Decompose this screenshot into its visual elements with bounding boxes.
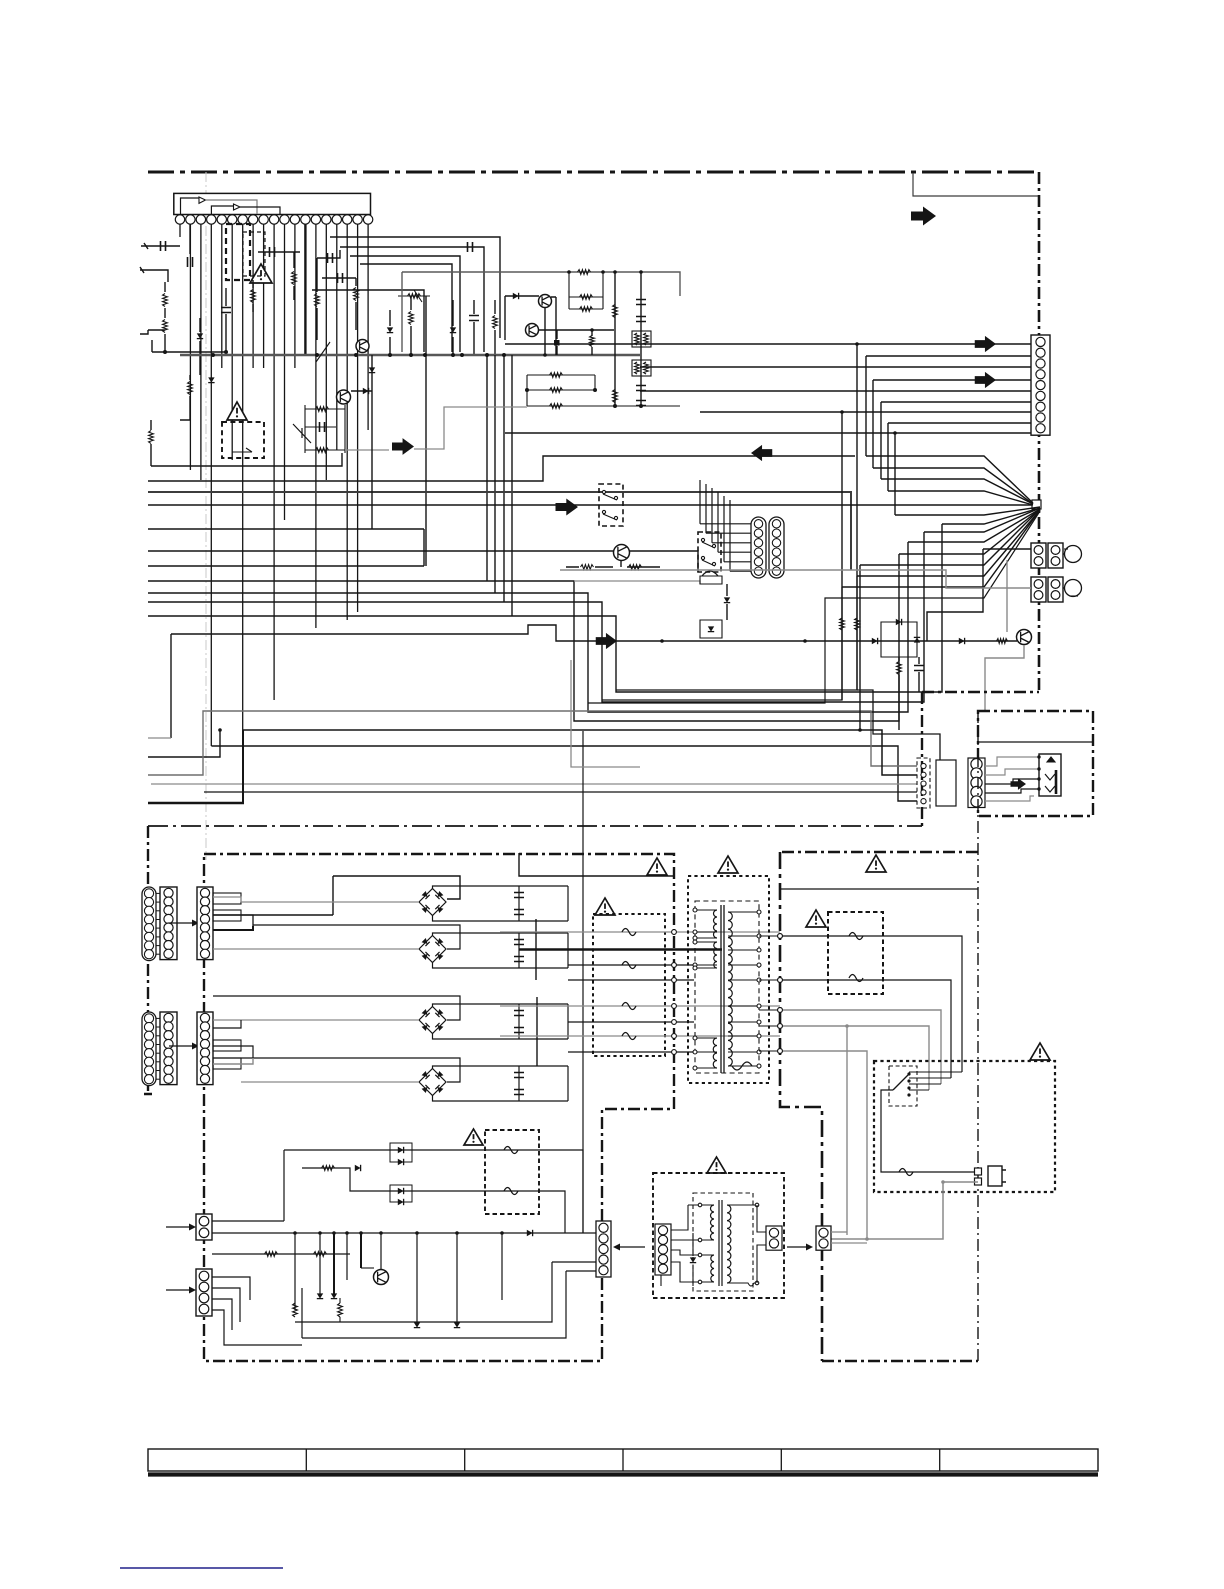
terminal circles on border [672,930,677,935]
warning triangle AC box [866,855,886,872]
AC wire 5 gray [780,1051,867,1239]
resistor R7 [315,294,320,307]
transformer T1 outer dotted box [688,876,769,1083]
T2 taps [688,1205,714,1282]
resistor R4 [188,382,193,395]
main standby bus [212,1232,596,1234]
transistor Q10 [374,1270,389,1285]
fan wire low4 [908,509,1040,542]
standby wire 2 + fuse [302,1168,565,1233]
line out6 [568,1021,694,1023]
small resistor R22 [338,1303,343,1317]
diode drop from bus [371,355,373,529]
resistor R9 [409,312,414,325]
pin branch staircase 5 [312,290,424,352]
fan wire low2 [942,508,1040,524]
left bus wire 6 [148,565,424,567]
bus junction dots [211,353,215,357]
thick analog bus line [180,354,640,357]
T1 primary winding 1 [714,910,718,938]
T1 primary taps [695,909,717,911]
arrow into CN-AC [787,1246,809,1248]
line out8 [568,1051,694,1053]
CN1 wire 8 [888,423,1031,491]
staircase vertical 1 [486,355,488,581]
lower-left long wire 2 [243,730,917,775]
bridge DB1 loop wire [213,876,460,915]
lower return wires [295,1262,596,1322]
diode D20 [527,1230,533,1236]
thermistor bump [732,1062,752,1070]
arrow into CN-S1 [166,1226,192,1228]
diode D2 [387,327,393,332]
fan node terminal [1032,500,1041,509]
connector CN-AC [816,1226,831,1250]
resistor R21 [293,1303,298,1317]
CN1 wire 3 [640,366,1031,368]
CN1 wire 2 [866,356,1031,456]
conn wires to bridges [213,897,241,902]
T2 right connector [766,1226,782,1250]
lamp connector pair 1 [1031,543,1046,568]
fan wire up3 [881,479,1033,504]
fan wire low3 [924,508,1040,532]
resistor R2 [163,320,168,333]
thick stub bottom left [148,802,244,804]
pin branch staircase 4 [360,264,452,352]
arrow lower mid [596,633,617,649]
line out4 [568,979,694,981]
node circles AC [778,934,783,939]
cap C2 [189,224,191,254]
wire to lamp1 [927,549,1031,641]
resistor R5 trimming [293,252,295,268]
arrow into IR [1011,778,1027,790]
buffer B inside U1 [211,206,233,215]
IR module box [1039,754,1061,796]
left bus wire 8 [148,542,908,712]
left bus wire 4 [148,528,424,530]
wire Q2 drops [545,297,556,355]
wires into J1 [700,523,751,525]
inter-rail vertical 2 [536,997,538,1066]
lamp LA2 [1063,587,1068,589]
T1 secondary winding [728,912,732,1066]
standby fuse dashed box [485,1130,539,1214]
wire pin3 to sub board [211,746,917,801]
thick secondary line [519,948,722,950]
warning triangle lower-left [227,402,247,420]
AC inlet dotted box [874,1061,1055,1192]
cap C7 [469,316,479,321]
power section top border [148,825,922,827]
resistor R20 [322,1166,335,1171]
T2 secondary winding [727,1205,731,1283]
transistor Q4 [337,390,351,404]
resistor R6 [251,290,256,303]
dashed box relay RY3 [222,422,264,458]
keyed stub plug 4 [213,1058,241,1069]
CN1 wire 7 drop [841,412,843,700]
tie lines pair1 [156,892,160,894]
resistor R13 [997,639,1008,644]
CN1 wire 6 [881,402,1031,479]
annotation slash [316,342,330,362]
bridge rectifier DB1 [241,901,418,903]
junctions [525,388,529,392]
resistor ladder RN1 [402,272,680,296]
diode D5 [872,638,878,644]
AC primary box left border [780,852,822,1361]
junction dots left cluster [163,350,167,354]
AC wire 3 gray [780,1010,941,1084]
AC primary box bottom border [822,1360,978,1362]
gray wire from plug [829,1182,978,1239]
bundle wire 792 [204,791,917,793]
bottom bundle wire 3 [151,783,917,785]
switch lever S1 [293,424,311,443]
inner dashed box small [243,232,265,276]
warning triangle AC inlet [1030,1043,1050,1060]
R/C/R bracket under Q4 [305,405,345,453]
gray drop to bundle [571,660,640,767]
resistor box pair RN2a [632,331,651,347]
fuse box F1-F4 [593,914,665,1056]
AC wire 2 with fuse [780,980,951,1078]
T1 secondary taps [728,911,759,913]
fuse F1 [500,931,780,933]
connector CN-P1 [197,887,213,960]
small trim resistor with arrow [398,290,430,302]
wire left stub row2 [140,270,168,282]
fan wire low9 [588,511,1040,703]
power unit box border [204,854,674,1361]
fuse F3 [500,1005,780,1007]
warning triangle power unit [647,858,667,875]
components mid bus [604,1249,610,1254]
pin branch staircase 2 [340,247,484,352]
IC pin wires [179,224,181,237]
coupling cap C1 and stub [144,245,180,247]
wire with diode D4 and transistor Q2 [505,295,539,297]
top right sub box [913,173,1038,196]
transformer T1 warning triangle [718,856,738,873]
column resistor x615 [614,272,616,406]
diode on pin3 drop [208,377,214,382]
transformer T1 inner dashed box [695,901,759,1073]
lamp LA1 [1063,553,1068,555]
staircase wires CN8 to IR [985,757,1039,766]
pin branch staircase 3 [350,256,460,352]
long vertical from trim [425,296,427,566]
lower-left long wire gray [148,711,917,775]
power section left border [144,826,152,1094]
T2 core [719,1200,722,1286]
wires T2 conn [671,1205,688,1230]
cap C5 [317,250,340,258]
arrow out of T2 left [617,1246,645,1248]
footer link line [120,1567,283,1569]
transistor Q3 [526,324,539,337]
gray drop to CN-AC [846,1026,848,1235]
caps C8 C9 [636,386,646,391]
page split dash-dot faint vertical [205,172,207,860]
wire left jog to bundle [148,730,220,757]
dashed relay RY1 [599,484,623,526]
T1 primary winding 3 [713,1038,717,1068]
coil connector J1 [751,517,766,578]
connector CN-S2 [196,1269,212,1316]
table bottom heavy rule [148,1472,1098,1476]
bus drops [294,1233,296,1310]
power switch dashed box [889,1066,917,1106]
inter-rail vertical 1 [535,919,537,980]
connector CN1 [1031,335,1050,435]
right column caps x641 [640,272,642,406]
wire y330 with diode square [538,329,614,331]
diode D1 [197,333,203,338]
wire to Q4 bracket [151,453,342,466]
arrow on bus 3 [556,498,579,515]
main board border right [1038,172,1041,692]
left bus wire 1 [148,456,855,481]
AC plug body [988,1166,1002,1186]
diodes on drops [317,1293,323,1298]
lamp connector pair 2 [1031,577,1046,602]
cap C4 series [258,251,300,253]
operation sub box [978,711,1093,816]
CN1 wire 1 with arrow [505,343,1031,345]
pin branch staircase 1 [330,237,500,338]
resistor R1 [164,282,166,292]
left bus wire 5 [148,551,698,572]
standby vertical from CN-S1 [212,1150,284,1221]
staircase vertical 3 [503,355,505,602]
keyed stub plug 2 [213,910,241,921]
buffer A inside U1 [181,198,200,215]
keyed stub plug 3 [213,1040,241,1051]
standby feed vertical [582,731,584,1233]
ribbon connector pair 1 [142,887,156,961]
T1 core [721,905,724,1073]
gray wires from CN-AC [831,1231,847,1233]
AC wire 1 with fuse [780,936,962,1072]
fan wire low7 [857,510,1040,576]
revision table [148,1449,1098,1471]
sub board frame left [921,692,923,830]
left branch wires [140,330,165,334]
cap C3 [221,308,231,313]
resistor R14 vertical [897,662,902,675]
IC pins [175,215,184,224]
diode D3 [450,327,456,332]
arrow into CN-P1 [169,922,195,924]
arrow left mid [751,445,772,461]
resistor R3 [149,431,154,444]
diode Q4 to bus drop [351,390,372,392]
resistor R12 [629,565,642,570]
switch to fuse wire [881,1090,975,1172]
resistor drop [590,336,595,347]
T2 primary winding [711,1205,714,1240]
wire from Q6 down [985,645,1024,711]
sub loop with diodes [700,620,722,638]
sub rail [212,1253,350,1255]
warning triangle fuses AC [806,910,826,927]
fan wire up4 [888,491,1033,505]
gray wire to relay coil [574,581,700,584]
staircase wire to sub board [857,690,940,766]
transistor Q5 [614,545,630,561]
connector CN-P2 [197,1012,213,1085]
main wire to Q6 [171,625,1017,641]
sub box inner line [978,741,1093,743]
left bus wire 9 [148,532,924,702]
inner top line [780,888,978,890]
warning triangle near U1 [250,264,272,283]
diode pair block 1 [390,1143,412,1162]
dashed relay RY2 [698,532,721,572]
fan wire low8 [842,510,1040,587]
dashed terminal strip [917,758,930,808]
fan wire low6 [860,509,1040,565]
CN1 wire 5 [640,390,1031,392]
fuse F2 [568,964,694,966]
gray feed to AMP [1006,560,1008,632]
bridge rectifier DB4 [213,1058,460,1082]
coil connector J2 [769,517,784,578]
connector CN-T2 five [596,1221,611,1277]
left bus wire 3 with arrow [148,504,1032,506]
AC wire 4 gray [780,1026,929,1090]
CN1 wire 1 drop [856,344,858,690]
staircase vertical 4 [511,355,513,616]
warning triangle fuse box [595,898,615,915]
AC fuse dashed box [828,912,883,994]
arrow to other sheet top right [911,207,936,226]
wire drop left [170,634,172,738]
ribbon connector pair 2 [142,1012,156,1086]
bridge rectifier DB2 [253,925,460,949]
AC primary box top border [782,851,978,853]
standby wire 1 + fuse [284,1150,583,1233]
fan wire up2 [873,468,1033,504]
T1 outputs to border circles [759,935,780,937]
resistor trio RN3 [527,375,680,406]
arrow into CN-S2 [166,1289,192,1291]
connector CN8 [968,758,985,808]
AC plug pins [975,1168,982,1175]
left bus wire 2 (gray thick) [148,492,851,570]
bold dashed box around reg [226,224,250,280]
main board border top [148,171,1039,174]
arrow mid-left [392,438,414,455]
warning triangle T2 [707,1157,726,1173]
T1 primary winding 2 [714,942,717,968]
CN1 wire 9 [505,432,1031,434]
loop with diodes right [881,622,917,657]
cap C6 h [322,277,356,279]
T2 dotted box [653,1173,784,1298]
arrow into CN-P2 [169,1045,195,1047]
diode pair block 2 [390,1185,412,1202]
cap column tie to border [519,853,674,876]
CN1 wire 4 with arrow [873,379,1031,381]
AC primary box right border [977,711,979,1361]
cap C10 [914,666,924,671]
bridge rectifier DB3 [213,996,460,1020]
fuse F4 [500,1035,780,1037]
left bus wire 7 [148,554,899,721]
corner drop to wire 6 [423,529,425,566]
left bus wire 10 [148,524,942,692]
gray wire to lamp2 [560,570,1031,588]
op-amp IC U1 body [174,193,371,214]
connector CN-S1 [196,1214,212,1240]
ferrite block [936,760,956,806]
T2 inner dashed box [693,1193,753,1291]
resistor R8 [354,288,359,301]
resistor R10 [493,316,498,329]
warning triangle standby [464,1129,483,1145]
staircase vertical 2 [494,355,496,593]
keyed stub plug 1 [213,893,241,904]
transistor Q6 [1017,630,1032,645]
T2 left connector [655,1224,671,1275]
fan wire up1 [866,456,1033,503]
transistor Q1 [356,340,369,353]
resistor R11 [581,565,594,570]
switch contacts [893,1074,909,1090]
fan wire low1 [895,507,1040,515]
relay coil bump [702,571,718,576]
CN1 wire 7 [700,411,1031,413]
fan wire low5 [899,509,1040,554]
relay contact mark [232,448,252,452]
